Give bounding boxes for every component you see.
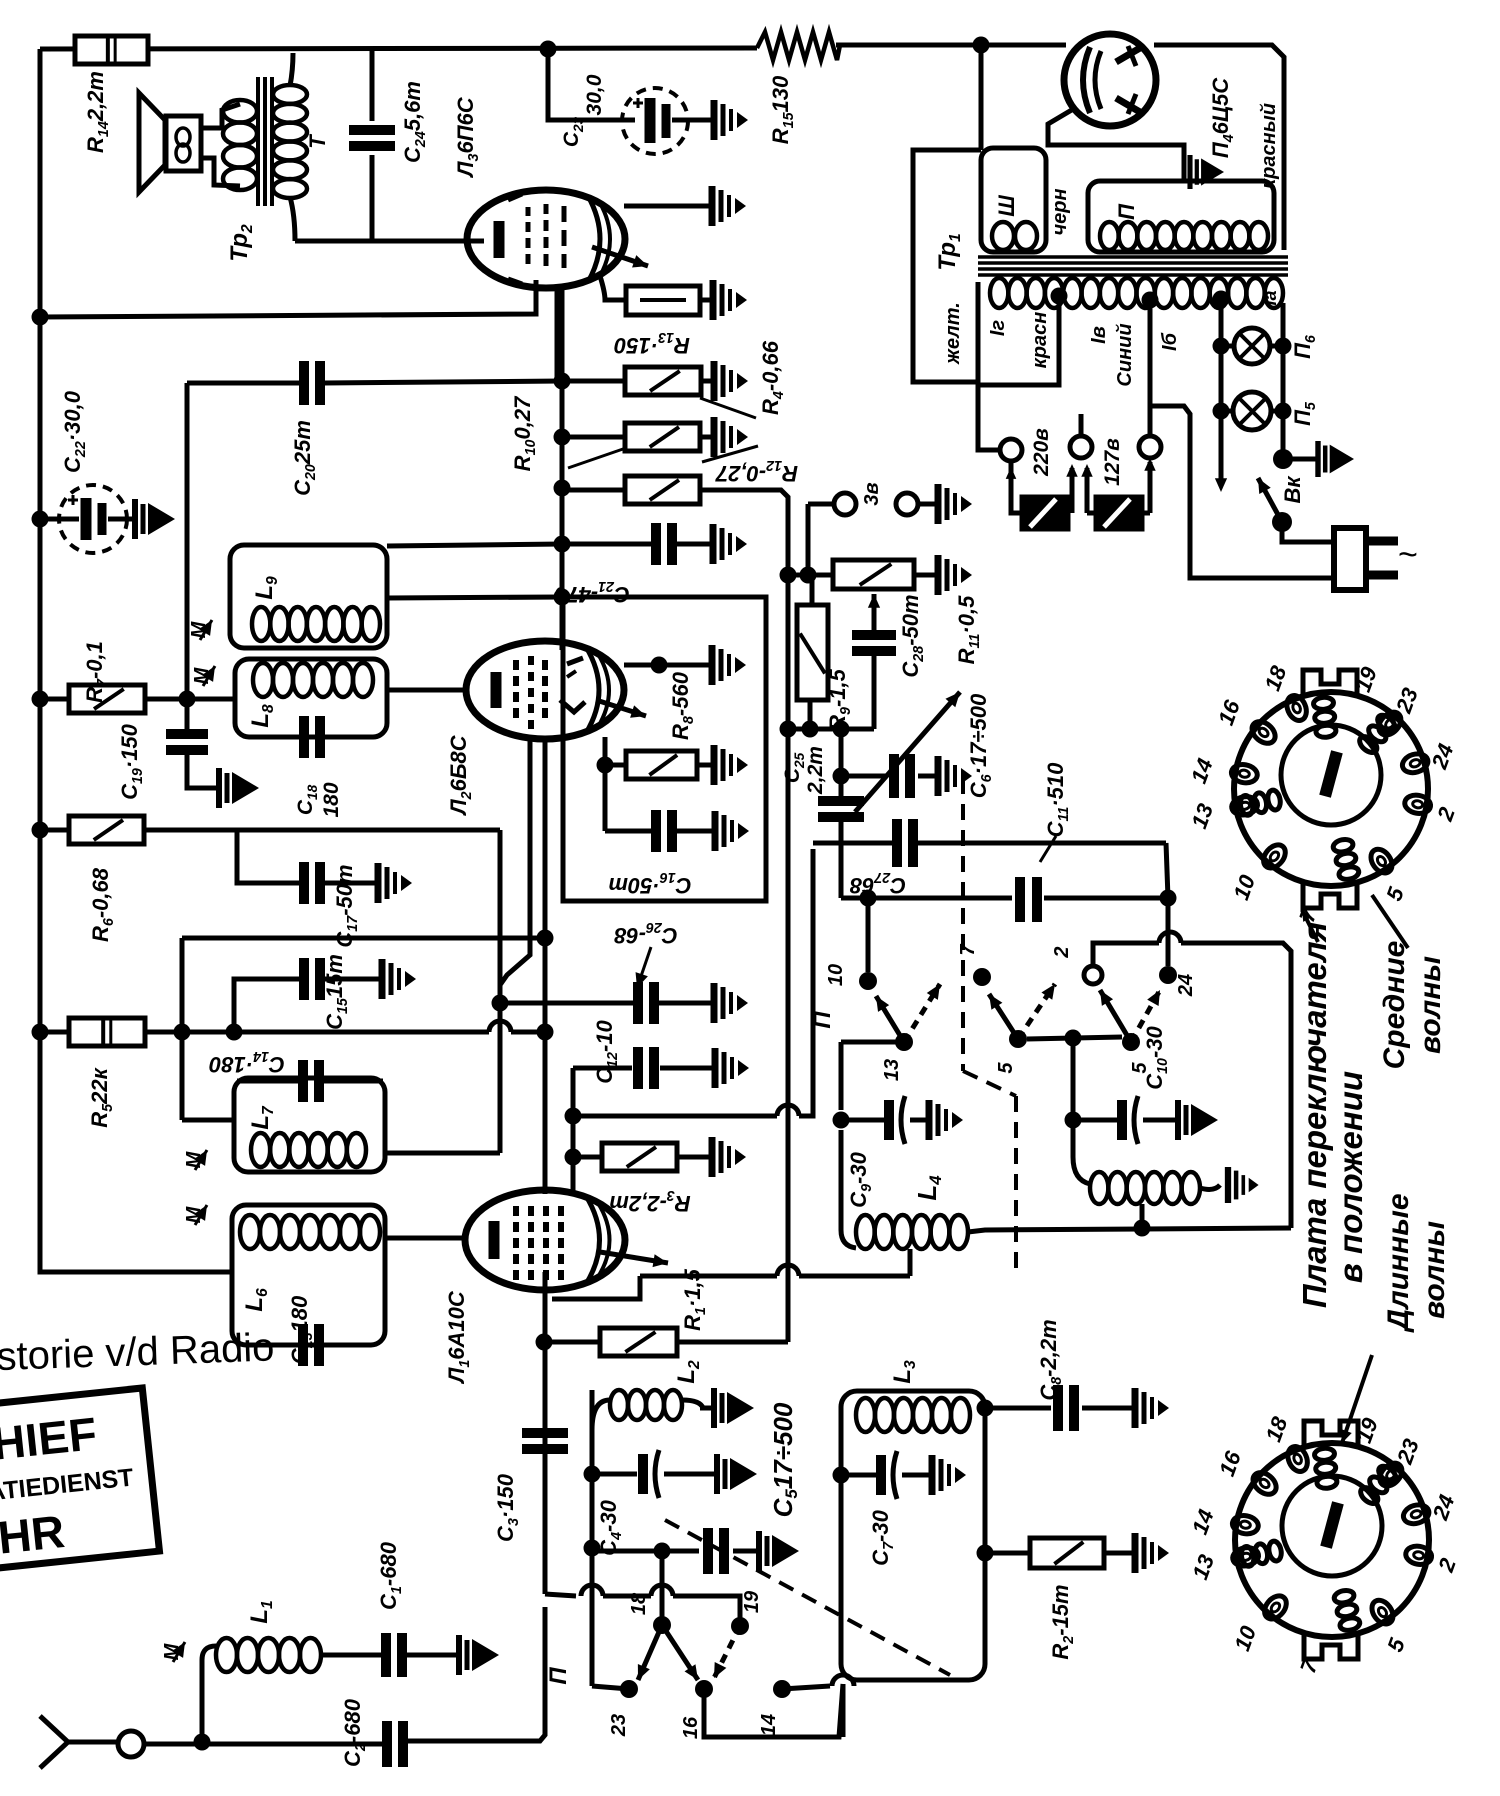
coil L8 (253, 663, 273, 697)
resistor R10 (625, 423, 700, 451)
switch lever 5a dashed (1018, 984, 1055, 1039)
svg-text:5: 5 (1129, 1062, 1151, 1074)
coil L3 box (841, 1391, 985, 1680)
wire C4 (592, 1472, 637, 1477)
wire L8 to tube V2 (387, 688, 467, 693)
wire V3 grid column (560, 287, 565, 650)
svg-text:Л2​6Б8С: Л2​6Б8С (446, 734, 475, 816)
wire L2 to ground (700, 1406, 714, 1411)
terminal 127v3 (1139, 436, 1161, 458)
svg-text:желт.: желт. (942, 302, 964, 365)
switch lever 18-23 (638, 1625, 662, 1680)
wire primary left (913, 150, 981, 382)
svg-text:Iг: Iг (987, 320, 1009, 337)
tube V1 inner arc (586, 1196, 600, 1284)
transformer Tp1 secondary loops (990, 278, 1008, 308)
wire C15 left (234, 979, 300, 1032)
tube V3 cathode (494, 221, 505, 258)
ground 3v (935, 484, 942, 524)
svg-text:Длинные: Длинные (1382, 1193, 1415, 1333)
switch lever 13 dashed (904, 984, 940, 1042)
wire C23 to ground (672, 118, 714, 123)
tube V2 inner arc (586, 647, 599, 733)
svg-text:С1​-680: С1​-680 (376, 1541, 405, 1610)
svg-text:R10​0,27: R10​0,27 (510, 395, 539, 471)
wire C12 (573, 1066, 632, 1071)
tube V2 grid 2 (528, 656, 534, 665)
capacitor C3 (522, 1428, 568, 1438)
tube V4 envelope (1064, 34, 1156, 126)
contact 2 (1084, 966, 1102, 984)
wire R4 left (562, 379, 625, 384)
ground C26 (711, 983, 718, 1023)
switch lever 19-16 dashed (714, 1626, 740, 1678)
svg-text:R12​-0,27: R12​-0,27 (714, 457, 798, 486)
stamp box (0, 1388, 159, 1572)
ground C8 (1132, 1388, 1139, 1428)
wire C6 row (841, 774, 886, 779)
wire x187 vertical (185, 383, 190, 729)
svg-text:2,2т: 2,2т (804, 746, 827, 795)
wire C21 to ground (677, 542, 713, 547)
transformer Tp2 core (256, 77, 260, 206)
resistor R12 (625, 476, 700, 504)
svg-text:С4​-30: С4​-30 (596, 1499, 625, 1555)
rotary wafer lower pin 14 (1231, 1514, 1260, 1536)
switch lever 5b-24 dashed (1131, 990, 1160, 1042)
dashed boundary line (961, 778, 965, 1071)
wire lamp column right (1281, 303, 1286, 459)
rotary wafer upper pin 24 (1400, 751, 1430, 776)
capacitor C8 (1053, 1385, 1063, 1431)
wire tap2 down (1148, 300, 1153, 436)
pointer R10 (568, 449, 623, 468)
wire C22 (40, 517, 79, 522)
wire 3v ground (918, 502, 938, 507)
wire 220v to fuse (1011, 461, 1022, 513)
svg-text:Плата переключателя: Плата переключателя (1296, 922, 1333, 1308)
svg-text:П: П (809, 1011, 836, 1029)
wire C21 left from L9 (387, 544, 562, 546)
contact 24 (1159, 966, 1177, 984)
svg-text:180: 180 (320, 782, 343, 817)
ground R10 (711, 417, 718, 457)
ground V3 plate wire (709, 186, 716, 226)
resistor R3 (602, 1143, 677, 1171)
variable arrow C6 (855, 692, 960, 812)
coil L6 (240, 1215, 260, 1249)
capacitor C14 (298, 1060, 308, 1102)
wire P column x841 (839, 1042, 844, 1110)
svg-text:С13​180: С13​180 (287, 1295, 316, 1364)
wire y943 to corner (1181, 943, 1291, 1228)
rotary wafer upper pin 10 (1259, 841, 1290, 872)
wire R7 right (145, 697, 236, 702)
svg-text:R15​130: R15​130 (768, 75, 797, 144)
tube V2 envelope (466, 641, 624, 739)
capacitor C20 (299, 361, 309, 405)
svg-text:R13​·150: R13​·150 (613, 329, 690, 358)
wire R2 to ground (1104, 1551, 1135, 1556)
svg-text:Т: Т (305, 134, 330, 149)
tap dots (1051, 288, 1068, 305)
capacitor C18 (299, 716, 309, 758)
svg-text:С12​-10: С12​-10 (592, 1019, 621, 1083)
wire R12 left (562, 488, 625, 493)
wire lamp column left (1219, 299, 1224, 482)
wire C2 right (408, 1607, 545, 1741)
ground arrow P (1187, 155, 1192, 189)
tube V2 cathode (491, 672, 502, 708)
svg-text:С14​·180: С14​·180 (208, 1048, 285, 1077)
pointer C26 (637, 947, 651, 988)
coil L7 box (234, 1078, 385, 1172)
rotary wafer upper pin 16 (1248, 717, 1279, 748)
svg-text:С19​·150: С19​·150 (117, 723, 146, 800)
wire V2 plate to ground (624, 663, 712, 668)
coil L2 (592, 1400, 610, 1430)
rotary wafer lower hub (1320, 1501, 1343, 1549)
pointer plata (1302, 910, 1318, 942)
wire y1116 (573, 1114, 777, 1119)
wire V1 screen link (552, 1276, 640, 1299)
transformer Tp1 core (978, 255, 1288, 259)
rotary wafer lower outline (1235, 1443, 1429, 1637)
plug (1334, 528, 1366, 590)
wire x981 down (979, 45, 984, 150)
wire y938 (182, 936, 545, 941)
wire C12 to ground (660, 1066, 715, 1071)
capacitor C24 (349, 125, 395, 135)
svg-text:С28​-50т: С28​-50т (898, 594, 927, 677)
wire C17 to ground (324, 881, 376, 886)
ground R3 (709, 1137, 716, 1177)
capacitor C15 (299, 958, 309, 1000)
wire C26 to ground (659, 1001, 714, 1006)
transformer Tp2 primary winding (223, 100, 257, 123)
rotary wafer lower pin 24 (1401, 1502, 1431, 1527)
wire R10 to ground (700, 435, 714, 440)
switch Vk contact top (1273, 449, 1293, 469)
svg-text:16: 16 (680, 1716, 702, 1739)
svg-text:13: 13 (881, 1059, 903, 1081)
wire C16 right (677, 829, 715, 834)
wire R13 from tube (600, 276, 626, 300)
svg-text:R6​-0,68: R6​-0,68 (88, 867, 117, 942)
ground R4 (711, 361, 718, 401)
rotary wafer lower pin 2 (1404, 1544, 1433, 1566)
ground C15 (379, 959, 386, 999)
wire x1168 (1166, 843, 1168, 966)
resistor R2 (1030, 1538, 1104, 1568)
wire R12 corner to R11 row (780, 567, 797, 584)
svg-text:С26​-68: С26​-68 (613, 919, 677, 948)
wire L1 to C1 (321, 1653, 382, 1658)
wire C27 row (813, 841, 893, 846)
wire C5 (592, 1549, 699, 1554)
svg-text:19: 19 (741, 1590, 763, 1613)
wire R4 to ground (701, 379, 714, 384)
svg-text:R8​-560: R8​-560 (668, 671, 697, 740)
tube V4 anode 1 (1116, 48, 1140, 62)
capacitor C10 trimmer (1073, 1118, 1117, 1123)
capacitor C9 trimmer (841, 1118, 884, 1123)
wire R3 to ground (677, 1155, 712, 1160)
wire C11 row (841, 896, 1012, 901)
ground C22 (132, 499, 138, 539)
wire C6 to ground (918, 774, 938, 779)
pointer C11 (1040, 836, 1056, 862)
coil L9 (252, 607, 270, 641)
pointer R12 (702, 446, 758, 462)
coil L3 (856, 1398, 875, 1432)
wire 23 stub (592, 1686, 629, 1689)
lamp P6 (1234, 328, 1270, 364)
antenna (40, 1716, 68, 1768)
capacitor C16 (651, 810, 661, 852)
svg-text:С6​·17÷500: С6​·17÷500 (966, 693, 995, 798)
wire L9 to detector box (387, 597, 563, 598)
svg-text:С17​-50т: С17​-50т (332, 864, 361, 947)
contact 5a (1009, 1030, 1027, 1048)
svg-text:R5​22к: R5​22к (87, 1066, 116, 1127)
contact 10 (859, 972, 877, 990)
svg-text:23: 23 (608, 1714, 630, 1737)
wire V1 plate bus (640, 1274, 777, 1279)
wire C14 right (323, 1079, 383, 1084)
ground R8 (711, 745, 718, 785)
wire contact13 row (841, 1040, 896, 1045)
tube V4 cathode arc (1083, 47, 1090, 113)
switch lever 18-16 (662, 1625, 698, 1680)
wire C16 left (605, 829, 651, 834)
wire top rail (40, 48, 757, 49)
svg-text:~: ~ (1398, 536, 1418, 574)
svg-text:R14​2,2т: R14​2,2т (83, 71, 112, 153)
ground C17 (375, 863, 382, 903)
coil L8 box (235, 659, 387, 737)
svg-text:10: 10 (825, 964, 847, 986)
wire R6 left (40, 828, 69, 833)
svg-text:127в: 127в (1101, 438, 1124, 486)
fuse 220 (1022, 497, 1068, 529)
ground C7 (929, 1455, 936, 1495)
coil L4 (841, 1230, 856, 1248)
wire x182 column (180, 938, 185, 1120)
svg-text:Вк: Вк (1280, 475, 1305, 504)
svg-text:П: П (545, 1667, 572, 1685)
capacitor C6 (889, 754, 899, 798)
winding Sh box (981, 148, 1046, 252)
pin arrow fuse1 (1070, 468, 1075, 513)
wire contact10 up (866, 898, 871, 972)
tube V2 grid 3 (542, 660, 548, 670)
wire C10 to ground (1143, 1118, 1178, 1123)
contact 18 (653, 1616, 671, 1634)
wire R1 right (677, 1340, 788, 1345)
wire y317 bus (40, 280, 536, 317)
tube V3 inner arc (588, 196, 600, 282)
wire R9 column (806, 504, 811, 575)
arrow into R11 (872, 594, 877, 635)
wire x843 below box (841, 1684, 846, 1737)
rotary wafer lower pin 13 (1231, 1545, 1260, 1568)
resistor R4 (625, 367, 701, 395)
lamp P5 (1233, 392, 1271, 430)
ground L5 (1225, 1167, 1231, 1203)
wire C22 to ground (108, 517, 135, 522)
tube V3 envelope (467, 190, 625, 288)
ground C4 (714, 1454, 720, 1494)
wire C21 (562, 542, 651, 547)
resistor R14 (75, 36, 148, 64)
ground C9 (926, 1100, 933, 1140)
coil L1 (216, 1638, 237, 1672)
svg-text:2: 2 (1051, 946, 1073, 958)
svg-text:R2​-15т: R2​-15т (1048, 1584, 1077, 1659)
svg-text:С10​-30: С10​-30 (1142, 1025, 1171, 1089)
contact 13 (895, 1033, 913, 1051)
wire C20 left (187, 381, 301, 386)
svg-text:С15​15т: С15​15т (322, 954, 351, 1030)
wire C15 to ground (324, 977, 380, 982)
ground C23 (711, 100, 718, 140)
rotary wafer upper hub (1319, 750, 1342, 798)
svg-text:С3​·150: С3​·150 (493, 1473, 522, 1542)
contact 7 (973, 968, 991, 986)
capacitor C21 (651, 523, 661, 565)
rotary wafer lower contact chains (1316, 1475, 1337, 1489)
terminal 220v (1000, 439, 1022, 461)
svg-text:Синий: Синий (1114, 323, 1136, 386)
svg-text:3в: 3в (861, 482, 883, 505)
pointer srednie (1372, 895, 1408, 948)
wire R1 left (545, 1340, 600, 1345)
transformer Tp2 secondary winding (273, 85, 307, 104)
wire C8 to ground (1082, 1406, 1135, 1411)
tube V3 grid (526, 207, 531, 216)
pin arrow fuse2b (1148, 462, 1153, 513)
terminal 3v circle1 (834, 493, 856, 515)
coil L7 (251, 1133, 270, 1167)
wire contact18 up (660, 1551, 665, 1625)
wire C26 (500, 1001, 633, 1006)
wire R3 left (573, 1155, 602, 1160)
wire C19 to ground (187, 750, 219, 788)
wire C4 to ground (664, 1472, 717, 1477)
tube V3 plate arrow (592, 247, 648, 266)
capacitor C4 trimmer (638, 1454, 648, 1494)
svg-text:П: П (1114, 203, 1139, 220)
wire L4 bottom tap (908, 1249, 913, 1276)
svg-text:30,0: 30,0 (583, 74, 606, 115)
wire x573 column (571, 1068, 576, 1192)
svg-text:П4​6Ц5С: П4​6Ц5С (1208, 77, 1237, 158)
svg-text:С9​-30: С9​-30 (846, 1151, 875, 1207)
winding P loops (1100, 222, 1119, 250)
fuse 127 (1096, 497, 1142, 529)
svg-text:Л3​6П6С: Л3​6П6С (453, 96, 482, 178)
ground C5 (756, 1531, 762, 1571)
pointer R4 (700, 398, 756, 418)
wire fuse2 to plug wire (1087, 511, 1096, 516)
wire tap2 branch (1150, 406, 1334, 578)
wire C9 to ground (910, 1118, 929, 1123)
svg-text:красный: красный (1258, 103, 1280, 189)
ground C1 (456, 1635, 462, 1675)
capacitor C23 electrolytic (645, 98, 656, 143)
wire C17 branch (237, 830, 300, 883)
terminal 3v circle2 (896, 493, 918, 515)
rotary wafer upper pin 14 (1230, 763, 1259, 785)
capacitor C2 (382, 1721, 392, 1767)
svg-text:Iв: Iв (1088, 326, 1110, 344)
capacitor C26 (633, 982, 643, 1024)
svg-text:24: 24 (1175, 974, 1197, 997)
ground C16 (712, 811, 719, 851)
switch lever 13-10 (876, 996, 904, 1042)
svg-text:Ш: Ш (994, 195, 1019, 217)
ground C21 (710, 524, 717, 564)
wire to L4 tap (908, 1249, 913, 1276)
resistor R7 (69, 685, 145, 713)
pointer dlinnye (1342, 1355, 1372, 1443)
wire R5 left (40, 1030, 69, 1035)
svg-text:С20​25т: С20​25т (290, 420, 319, 496)
capacitor C17 (299, 862, 309, 904)
svg-text:С24​5,6т: С24​5,6т (400, 81, 429, 163)
wire R6 right (144, 828, 500, 833)
svg-text:7: 7 (957, 944, 979, 956)
wire C5 to ground (733, 1549, 759, 1554)
wire antenna to junction (144, 1742, 382, 1747)
wire L7 left feed (182, 1118, 234, 1123)
winding Sh loops (992, 222, 1014, 250)
wire C24 top (370, 49, 375, 121)
resistor R8 (626, 751, 697, 779)
svg-text:Средние: Средние (1378, 941, 1411, 1070)
wire R12 right to corner down (700, 490, 788, 1342)
tube V2 grid 1 (513, 660, 519, 670)
wire Tp2 secondary bottom lead (290, 197, 295, 241)
rotary wafer upper pin 23 (1374, 708, 1405, 739)
tube V2 plate arrow (596, 700, 646, 716)
wire R10 left (562, 435, 625, 440)
svg-text:HR: HR (0, 1505, 67, 1564)
wire L5 tap (1140, 1204, 1145, 1228)
wire R8 column (603, 737, 608, 831)
svg-text:в положении: в положении (1332, 1071, 1369, 1283)
wire C7 to ground (902, 1473, 932, 1478)
svg-text:С16​·50т: С16​·50т (608, 869, 691, 898)
svg-text:волны: волны (1414, 956, 1447, 1054)
contact 16 (695, 1680, 713, 1698)
capacitor C7 trimmer (841, 1473, 876, 1478)
wire R9 bottom (808, 700, 813, 729)
capacitor C28 (852, 630, 896, 640)
switch Vk lever (1258, 478, 1282, 522)
wire x545 top (543, 737, 548, 1194)
rotary wafer upper pin 2 (1403, 793, 1432, 815)
box detector (563, 597, 766, 901)
pin arrow fuse2a (1085, 468, 1090, 513)
wire x788 upper (786, 577, 791, 729)
capacitor C12 (633, 1047, 643, 1089)
rotary wafer lower pin 16 (1249, 1468, 1280, 1499)
svg-text:волны: волны (1418, 1221, 1451, 1319)
wire y1596 (545, 1594, 576, 1596)
terminal 127v2 (1070, 436, 1092, 458)
